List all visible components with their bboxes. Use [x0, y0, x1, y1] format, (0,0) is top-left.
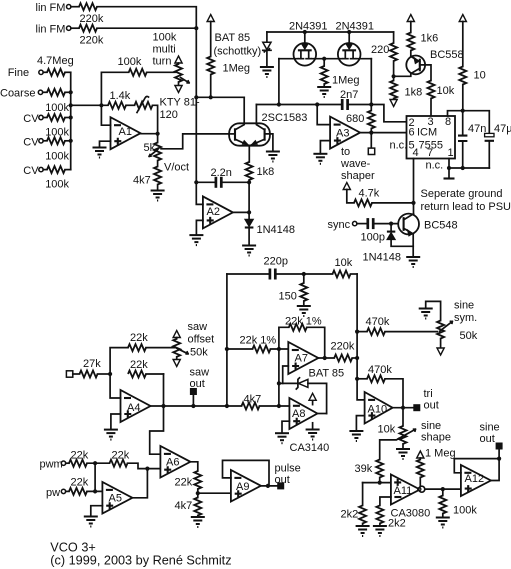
resistor 4k7 divider	[197, 493, 199, 497]
svg-text:out: out	[424, 400, 439, 412]
node	[209, 95, 213, 99]
wire top row of waveshaper	[227, 273, 269, 275]
resistor 22k to A6	[110, 460, 128, 467]
resistor 4k7 to A8	[242, 403, 260, 410]
resistor 100k CV1	[47, 114, 65, 121]
resistor 22k 1% to A7	[227, 348, 253, 350]
svg-text:V/oct: V/oct	[164, 162, 189, 174]
node pin4/4.7k/collector	[411, 201, 415, 205]
node A8 inverting	[277, 404, 281, 408]
node A3 inverting tap	[315, 102, 319, 106]
resistor 1k8 to negative rail	[393, 76, 395, 80]
op-amp A2	[203, 196, 233, 228]
wire pwm to pw join	[94, 463, 96, 491]
svg-text:sine: sine	[454, 300, 474, 312]
resistor 220k lin FM 1	[79, 3, 97, 10]
ground	[297, 306, 311, 316]
wire A8 output	[317, 413, 326, 415]
resistor 39k	[376, 460, 383, 478]
node integrator summing	[194, 180, 198, 184]
svg-text:sym.: sym.	[454, 312, 477, 324]
svg-text:2k2: 2k2	[341, 509, 359, 521]
svg-text:BC548: BC548	[424, 220, 458, 232]
svg-text:BAT 85: BAT 85	[215, 32, 251, 44]
ground	[266, 152, 280, 162]
wire common emitter	[248, 145, 250, 162]
svg-text:2.2n: 2.2n	[211, 167, 232, 179]
capacitor 47n	[462, 111, 464, 135]
wire A7 non-inverting	[283, 366, 289, 383]
wire	[71, 27, 79, 29]
wire A1 inverting input	[101, 105, 110, 125]
capacitor 2.2n	[196, 181, 215, 183]
svg-text:Fine: Fine	[8, 67, 29, 79]
resistor 2k2 right	[376, 505, 383, 523]
svg-text:1N4148: 1N4148	[363, 252, 402, 264]
ground	[313, 154, 327, 164]
svg-text:22k: 22k	[175, 477, 193, 489]
node	[277, 102, 281, 106]
wire left JFET to timing node	[278, 59, 280, 105]
trimpot 50k saw offset	[173, 331, 180, 338]
svg-text:27k: 27k	[83, 358, 101, 370]
op-amp A12	[461, 465, 491, 496]
resistor 1k8 emitter	[246, 162, 253, 180]
svg-text:22k: 22k	[71, 477, 89, 489]
svg-text:Coarse: Coarse	[0, 88, 35, 100]
node feedback	[161, 404, 165, 408]
node A10 output	[401, 406, 405, 410]
svg-text:CA3140: CA3140	[290, 442, 330, 454]
wire collector rail	[196, 96, 244, 98]
svg-text:VCO 3+: VCO 3+	[50, 541, 95, 555]
node summing junction	[99, 103, 103, 107]
svg-text:120: 120	[160, 109, 178, 121]
node 220/1k8/collector	[392, 74, 396, 78]
svg-text:2N4391: 2N4391	[336, 21, 375, 33]
wire shaper bus down	[278, 349, 280, 406]
output square tri out	[413, 404, 420, 411]
ground	[349, 431, 363, 441]
svg-text:ICM: ICM	[417, 127, 437, 139]
resistor 220k lin FM 2	[79, 25, 97, 32]
wire A3 non-inverting to ground	[320, 141, 330, 154]
resistor 680	[370, 105, 372, 111]
svg-text:1k8: 1k8	[257, 166, 275, 178]
wire right base to ground	[265, 134, 273, 152]
wire saw bus left	[226, 274, 228, 406]
node A7 output	[323, 356, 327, 360]
node gate rail right	[347, 30, 351, 34]
op-amp A11 CA3080	[391, 475, 420, 505]
node 150 junction	[302, 272, 306, 276]
SECTION: top-left CV inputs and A1	[0, 2, 229, 201]
output square to wave-shaper	[370, 133, 372, 148]
ground	[242, 246, 256, 256]
op-amp A5	[102, 482, 132, 514]
resistor 4k7	[157, 161, 159, 167]
svg-text:22k: 22k	[112, 450, 130, 462]
trimpot 50k sine symmetry	[426, 301, 441, 320]
resistor 22k 1% A7 feedback	[279, 327, 289, 349]
node A1 output	[156, 132, 160, 136]
capacitor 2n7	[342, 99, 347, 110]
svg-text:220k: 220k	[80, 13, 104, 25]
svg-text:return lead to PSU: return lead to PSU	[421, 201, 511, 213]
ground	[356, 526, 370, 536]
supply arrow A8 V+	[312, 400, 314, 404]
wire sine shape wiper to 39k	[380, 439, 399, 460]
op-amp A3	[330, 117, 360, 149]
node rail/10	[461, 109, 465, 113]
trimpot 5k V/oct	[157, 134, 159, 143]
wire A11 output to A12	[425, 488, 461, 490]
svg-text:(schottky): (schottky)	[214, 46, 262, 58]
svg-text:A9: A9	[236, 481, 249, 493]
resistor 22k pw	[69, 488, 87, 495]
resistor 22k A4 feedback	[128, 371, 146, 378]
svg-text:CV: CV	[23, 113, 39, 125]
wire A4 non-inverting to ground	[111, 414, 121, 430]
output square saw out	[192, 395, 194, 406]
svg-text:4: 4	[413, 147, 419, 159]
svg-text:wave-: wave-	[340, 158, 371, 170]
svg-text:100k: 100k	[45, 151, 69, 163]
svg-text:10k: 10k	[378, 424, 396, 436]
svg-text:220: 220	[371, 44, 389, 56]
svg-text:47n: 47n	[468, 123, 486, 135]
svg-text:sync: sync	[328, 219, 351, 231]
resistor 22k pwm	[69, 460, 87, 467]
svg-text:1k6: 1k6	[421, 33, 439, 45]
resistor 1Meg gate bleed	[323, 59, 325, 66]
ground	[189, 235, 203, 245]
transistor 2SC1583 dual	[229, 123, 270, 145]
wire to 7555 pin 2	[371, 105, 406, 122]
svg-text:CV: CV	[23, 136, 39, 148]
wire A10 non-inverting to ground	[356, 416, 364, 431]
svg-text:680: 680	[346, 113, 364, 125]
resistor 22k to offset pot	[110, 348, 128, 374]
node	[93, 489, 97, 493]
wire A5 non-inverting to ground	[91, 506, 103, 517]
wire lin FM bus	[195, 28, 197, 97]
node A7 inverting	[277, 347, 281, 351]
wire A1 feedback	[101, 72, 128, 105]
ground	[104, 430, 118, 440]
capacitor 100p	[368, 218, 373, 229]
wire A1 non-inverting input to ground	[100, 141, 111, 147]
svg-text:lin FM: lin FM	[36, 24, 66, 36]
op-amp A6	[160, 446, 190, 478]
wire right JFET down	[370, 59, 372, 105]
op-amp A7	[288, 342, 318, 374]
resistor 1Meg pull-up with supply arrow	[207, 15, 214, 22]
wire A5 output up	[132, 469, 147, 498]
svg-text:sine: sine	[421, 420, 441, 432]
svg-text:220p: 220p	[264, 256, 288, 268]
diode BAT 85 rectifier	[279, 382, 298, 384]
resistor 10k	[333, 271, 351, 278]
ground	[275, 433, 289, 443]
svg-text:470k: 470k	[368, 364, 392, 376]
wire A10 output	[393, 407, 414, 409]
svg-text:10k: 10k	[437, 85, 455, 97]
node sync diode	[389, 222, 393, 226]
svg-text:shaper: shaper	[341, 170, 375, 182]
resistor 22k divider	[194, 471, 201, 489]
separate ground terminal	[448, 168, 450, 177]
node A5 out / A6 +	[145, 467, 149, 471]
wire lin FM bus down to integrator input	[195, 97, 197, 182]
svg-text:470k: 470k	[366, 316, 390, 328]
svg-text:Seperate ground: Seperate ground	[421, 188, 503, 200]
wire tri bus	[357, 274, 365, 400]
ground	[84, 517, 98, 527]
resistor 2k2 left	[362, 483, 364, 506]
svg-text:A12: A12	[465, 473, 485, 485]
svg-text:47µ: 47µ	[494, 123, 511, 135]
ground	[436, 518, 450, 528]
resistor 1.4k	[108, 102, 126, 109]
wire	[153, 105, 158, 133]
wire A2 non-inverting input to ground	[196, 220, 203, 235]
svg-text:A6: A6	[166, 457, 179, 469]
node pulse out	[266, 484, 270, 488]
wire A11 inverting input	[380, 497, 391, 505]
resistor 220k to tri bus	[334, 355, 352, 362]
node lin FM junction	[194, 26, 198, 30]
svg-text:BAT 85: BAT 85	[309, 368, 345, 380]
op-amp A9	[231, 470, 261, 502]
wire A3 inverting input	[317, 105, 330, 125]
resistor 100k feedback	[129, 69, 147, 76]
wire A1 output	[141, 133, 158, 135]
node A3 output	[369, 131, 373, 135]
svg-text:22k: 22k	[130, 359, 148, 371]
wire A7 output	[318, 357, 334, 359]
ground	[191, 517, 205, 527]
node A2 output	[247, 210, 251, 214]
wire feedback/comparator drop	[150, 374, 164, 454]
svg-text:39k: 39k	[355, 463, 373, 475]
resistor 470k to sine sym pot	[357, 331, 367, 333]
wire to A9 +	[198, 492, 231, 494]
svg-text:2n7: 2n7	[340, 89, 358, 101]
svg-text:1k8: 1k8	[405, 87, 423, 99]
svg-text:1 Meg: 1 Meg	[425, 448, 456, 460]
node A11 non-inverting	[378, 481, 382, 485]
resistor 1 Meg with supply arrow	[417, 451, 424, 458]
svg-text:1Meg: 1Meg	[223, 63, 251, 75]
node saw summing	[108, 372, 112, 376]
thermistor KTY 81-120	[135, 102, 153, 109]
svg-text:1N4148: 1N4148	[257, 224, 296, 236]
svg-text:22k 1%: 22k 1%	[285, 316, 322, 328]
wire A4 output row	[151, 405, 242, 407]
resistor 150 to ground	[303, 274, 305, 283]
wire 5k wiper to expo base	[161, 134, 229, 149]
wire pin 1 / cap ground rail	[449, 159, 489, 169]
svg-text:100k: 100k	[453, 505, 477, 517]
svg-text:pulse: pulse	[275, 463, 301, 475]
svg-text:1Meg: 1Meg	[332, 75, 360, 87]
ground	[260, 67, 274, 77]
svg-text:10: 10	[474, 70, 486, 82]
wire CV summing bus	[70, 72, 72, 169]
ground	[317, 87, 331, 97]
input square from core	[66, 371, 72, 377]
svg-text:A8: A8	[292, 408, 305, 420]
wire	[71, 6, 79, 8]
wire A9 output	[261, 485, 277, 487]
op-amp A10	[365, 392, 393, 424]
svg-text:7: 7	[427, 147, 433, 159]
svg-text:4k7: 4k7	[133, 175, 151, 187]
resistor 1k6 with supply arrow	[407, 15, 414, 22]
svg-text:offset: offset	[188, 334, 215, 346]
svg-text:sine: sine	[480, 422, 500, 434]
resistor 100k Coarse	[47, 89, 65, 96]
node saw out	[191, 404, 195, 408]
svg-text:A4: A4	[127, 402, 140, 414]
wire	[97, 27, 196, 29]
wire comparator input row	[256, 104, 341, 106]
ground A8 V-	[312, 423, 314, 430]
output square sine out	[498, 450, 500, 459]
svg-text:22k: 22k	[71, 450, 89, 462]
svg-text:A2: A2	[207, 206, 220, 218]
resistor 10k	[428, 81, 435, 99]
svg-text:A1: A1	[119, 126, 132, 138]
op-amp A4	[121, 390, 151, 422]
svg-text:4.7Meg: 4.7Meg	[37, 55, 74, 67]
svg-text:shape: shape	[421, 432, 451, 444]
output square pulse out	[277, 482, 284, 489]
wire JFET source/drain row	[279, 58, 371, 60]
svg-text:22k: 22k	[130, 332, 148, 344]
svg-text:10k: 10k	[335, 257, 353, 269]
resistor 27k	[80, 371, 98, 378]
wire summing node to 1.4k	[71, 104, 108, 106]
wire BC558 base to 10k	[420, 65, 431, 81]
diode BAT 85 schottky gate clamp	[266, 32, 268, 42]
svg-text:pw: pw	[46, 487, 60, 499]
node 100k tap	[441, 487, 445, 491]
node pwm junction	[93, 461, 97, 465]
resistor 100k to ground	[442, 489, 444, 495]
svg-text:saw: saw	[190, 367, 210, 379]
svg-text:A10: A10	[368, 404, 388, 416]
wire A8 non-inverting to ground	[282, 421, 289, 433]
resistor 4.7k with supply arrow	[343, 183, 350, 190]
capacitor 220p	[270, 269, 275, 280]
svg-text:BC558: BC558	[430, 49, 464, 61]
svg-text:100k: 100k	[153, 32, 177, 44]
wire A6 output	[190, 462, 197, 471]
diode 1N4148 sync clamp	[390, 224, 392, 232]
svg-text:multi: multi	[153, 44, 176, 56]
wire	[97, 7, 196, 29]
svg-text:A3: A3	[336, 128, 349, 140]
ground	[151, 191, 165, 201]
svg-text:1: 1	[448, 147, 454, 159]
wire A9 feedback loop	[223, 460, 270, 486]
svg-text:out: out	[190, 378, 205, 390]
ground	[93, 148, 107, 158]
wire A2 output	[233, 211, 249, 213]
resistor 100k CV3	[47, 166, 65, 173]
op-amp A1	[111, 117, 141, 149]
svg-text:pwm: pwm	[40, 459, 63, 471]
capacitor 47u electrolytic	[485, 133, 494, 136]
svg-text:6: 6	[409, 127, 415, 139]
node between JFETs	[322, 57, 326, 61]
svg-text:2N4391: 2N4391	[289, 21, 328, 33]
node sine out	[497, 457, 501, 461]
node divider	[196, 491, 200, 495]
svg-text:4k7: 4k7	[244, 394, 262, 406]
svg-text:A11: A11	[394, 485, 413, 497]
svg-text:n.c.: n.c.	[426, 160, 444, 172]
resistor 10 with supply arrow	[459, 15, 466, 22]
svg-text:100k: 100k	[45, 179, 69, 191]
svg-text:2SC1583: 2SC1583	[262, 112, 308, 124]
resistor 220	[393, 32, 395, 43]
svg-text:2k2: 2k2	[388, 518, 406, 530]
svg-text:lin FM: lin FM	[36, 2, 66, 14]
node A11 output bubble	[419, 486, 425, 492]
svg-text:100k: 100k	[118, 56, 142, 68]
diode 1N4148 clamp	[248, 212, 250, 219]
svg-text:A7: A7	[295, 353, 308, 365]
svg-text:A5: A5	[109, 493, 122, 505]
svg-text:22k 1%: 22k 1%	[240, 335, 277, 347]
ground	[406, 257, 420, 267]
svg-text:n.c.: n.c.	[390, 140, 408, 152]
svg-text:turn: turn	[153, 56, 172, 68]
op-amp A8	[289, 398, 317, 429]
svg-text:out: out	[480, 433, 495, 445]
svg-text:to: to	[341, 146, 350, 158]
node gate rail left	[303, 30, 307, 34]
svg-text:50k: 50k	[460, 330, 478, 342]
ground	[373, 526, 387, 536]
IC ICM 7555	[407, 116, 456, 159]
svg-text:220k: 220k	[331, 341, 355, 353]
svg-text:100p: 100p	[361, 232, 385, 244]
node X cap/680/pin2	[369, 102, 373, 106]
wire to A11 + input	[363, 482, 391, 484]
svg-text:100k: 100k	[45, 102, 69, 114]
svg-text:8: 8	[445, 116, 451, 128]
svg-text:out: out	[275, 474, 290, 486]
trimpot 10k sine shape	[402, 408, 404, 426]
wire JFET gate rail	[267, 31, 394, 33]
wire A4 inverting input	[110, 374, 120, 398]
svg-text:150: 150	[279, 291, 297, 303]
svg-text:KTY 81-: KTY 81-	[160, 97, 200, 109]
svg-text:50k: 50k	[190, 347, 208, 359]
svg-text:1.4k: 1.4k	[110, 90, 131, 102]
wire pin 8 to V+ rail	[448, 111, 490, 135]
resistor 100k CV2	[47, 137, 65, 144]
wire A2 inverting input	[196, 182, 203, 204]
svg-text:(c) 1999, 2003 by René Schmitz: (c) 1999, 2003 by René Schmitz	[50, 554, 231, 568]
node timing cap to output	[247, 180, 251, 184]
svg-text:4k7: 4k7	[175, 500, 193, 512]
svg-text:CV: CV	[23, 165, 39, 177]
